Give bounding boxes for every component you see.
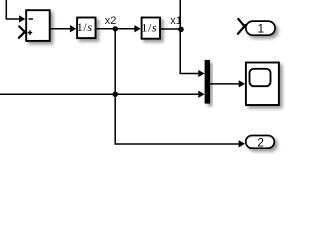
svg-text:2: 2 [257, 136, 264, 150]
svg-text:1/s: 1/s [141, 20, 157, 34]
svg-text:x2: x2 [105, 15, 117, 27]
svg-text:x1: x1 [170, 15, 182, 27]
svg-text:1: 1 [258, 22, 265, 36]
svg-text:1/s: 1/s [77, 20, 93, 34]
